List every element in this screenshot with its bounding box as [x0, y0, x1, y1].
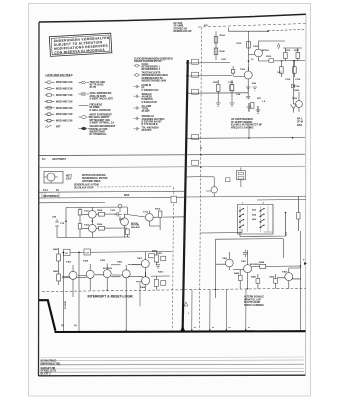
svg-text:WIDERSTAENDE OHM: WIDERSTAENDE OHM [142, 79, 167, 82]
wire y=214 [80, 214, 146, 217]
contact b3 [260, 220, 264, 222]
symbol row 5 [45, 107, 73, 110]
svg-text:ST-PKT: ST-PKT [142, 111, 151, 113]
svg-text:R464: R464 [259, 261, 265, 264]
drop wire x=210 [209, 290, 211, 333]
r-entry 2 [79, 92, 114, 100]
symbol row 3 [45, 94, 73, 97]
resistor R67 [149, 254, 155, 258]
arrowhead x=210 [208, 328, 211, 332]
bus bar (thick vertical supply line) [183, 60, 188, 332]
arrowhead x=246 [244, 328, 247, 332]
rail y=237 [57, 236, 130, 239]
capacitor C5 [278, 43, 280, 49]
wire bus branch y=63 [188, 62, 230, 65]
label box L1 [64, 249, 71, 256]
svg-text:GLEICHSPANNUNGEN GEMESSEN: GLEICHSPANNUNGEN GEMESSEN [134, 57, 173, 60]
frame top edge [39, 14, 306, 22]
ground G1 [247, 103, 252, 111]
resistor R44 [99, 226, 105, 230]
transistor T64 [122, 270, 130, 278]
transistor T80 [225, 259, 233, 267]
resistor R68 [154, 255, 158, 262]
svg-text:R315: R315 [155, 209, 161, 211]
svg-text:R204: R204 [220, 34, 226, 37]
svg-text:PUNKT-GL AUF: PUNKT-GL AUF [244, 298, 262, 301]
transistor T42 leads [91, 221, 93, 237]
svg-text:T312: T312 [143, 212, 149, 214]
interrupt dashed separator [42, 288, 306, 291]
m-entry 2 [134, 72, 168, 83]
transistor T63 leads [95, 264, 107, 291]
resistor R19 [269, 59, 274, 62]
svg-text:R401: R401 [53, 248, 59, 251]
wire x=249 v from grounds [249, 103, 258, 138]
dashed line below top frame [198, 24, 306, 28]
svg-text:FREQ 87.5-104 MHZ: FREQ 87.5-104 MHZ [231, 126, 254, 129]
wire y=266.4 [251, 265, 300, 267]
middle column header underline [134, 59, 165, 61]
svg-text:C207: C207 [221, 59, 227, 61]
contact a2 [239, 214, 243, 216]
bottom collector bar [55, 330, 306, 333]
wire label box a2 [192, 72, 199, 77]
svg-text:R2b: R2b [252, 83, 257, 85]
resistor R17 [293, 67, 297, 73]
junction dot on line y=167 at bus [185, 166, 187, 168]
frame left edge [38, 22, 41, 376]
junction dots on y=138 [248, 137, 250, 139]
rail line y=202.5 short [39, 201, 105, 203]
svg-text:ABGL IM SERV: ABGL IM SERV [90, 95, 107, 98]
label box R69r [161, 281, 166, 286]
junction x300 y266 [300, 265, 302, 267]
symbol row 1 [45, 81, 73, 84]
svg-text:BC238 A: BC238 A [292, 278, 301, 281]
svg-text:SIGNALE: SIGNALE [142, 93, 153, 96]
sub box right edge [282, 239, 284, 258]
svg-text:T403: T403 [66, 261, 72, 264]
resistor R21 [216, 85, 220, 92]
resistor R43 [99, 212, 105, 216]
transistor T65 leads [132, 252, 145, 277]
altern text block [244, 296, 264, 307]
wire label box a4 [192, 134, 199, 139]
contact a4 [239, 225, 243, 227]
svg-text:NETZ: NETZ [66, 176, 73, 178]
ground G4 [230, 103, 235, 107]
svg-text:R210: R210 [266, 56, 272, 58]
diode D1 [292, 84, 297, 88]
ground G3 [216, 103, 221, 107]
schematic frame border [39, 14, 307, 376]
rail line y=192 [39, 191, 185, 192]
svg-text:T302: T302 [84, 225, 90, 227]
resistor R62 [57, 274, 61, 281]
svg-text:ANLAUF: ANLAUF [131, 226, 141, 229]
sub box outline [216, 239, 284, 298]
frame right edge [305, 14, 308, 375]
svg-text:HAUPTABST: HAUPTABST [52, 158, 67, 161]
svg-text:MITTELWERT ANG: MITTELWERT ANG [90, 119, 111, 122]
node 1 tick [184, 302, 188, 306]
ground G5 [246, 87, 250, 90]
svg-text:T404: T404 [83, 260, 89, 263]
svg-text:LISTE DER BAUTEILE: LISTE DER BAUTEILE [46, 73, 74, 77]
svg-text:INTERRUPT & RESET-LOGIK: INTERRUPT & RESET-LOGIK [88, 295, 134, 299]
antenna Y symbol [291, 105, 297, 113]
svg-text:NFT: NFT [56, 126, 61, 129]
junction dots on dashed x=201 [200, 147, 201, 148]
rail line y=197.8 [39, 196, 185, 199]
text block HF-VERSTAERKER [231, 118, 262, 129]
wire vertical x=245 [248, 31, 250, 71]
svg-text:MOD 0902 C/N: MOD 0902 C/N [56, 120, 73, 123]
lower row labels [53, 248, 164, 289]
transistor T49 leads [149, 211, 160, 227]
vertical x=140 [139, 283, 141, 306]
drop wire x=226.5 [225, 289, 227, 332]
mid band small text [42, 158, 130, 198]
transistor T47 leads [124, 214, 126, 237]
svg-text:C.R: C.R [85, 253, 89, 255]
middle legend column [134, 63, 168, 132]
contact field right extension outline [264, 205, 274, 233]
right margin labels [297, 118, 303, 127]
transistor T1 leads [249, 45, 259, 61]
svg-text:T226: T226 [292, 98, 298, 100]
dashed boundary vertical x=173 [173, 187, 174, 330]
contact a3 [239, 220, 243, 222]
svg-text:220V: 220V [66, 179, 72, 181]
svg-text:C GROESS 1UF: C GROESS 1UF [142, 90, 160, 92]
svg-text:R306: R306 [97, 224, 103, 226]
transistor T3 [296, 101, 303, 108]
capacitor C45 [114, 212, 122, 217]
wire y=268 from junction down to T82 [289, 266, 301, 268]
symbol list header underline [46, 76, 72, 78]
svg-text:S 12: S 12 [43, 190, 48, 192]
resistor R13 [247, 42, 251, 49]
junction dot y=138 [185, 137, 187, 139]
capacitor C88 [55, 219, 59, 229]
transistor T41 leads [91, 207, 93, 221]
vertical x=57 [56, 229, 58, 238]
svg-text:D ENTSPR BAUST: D ENTSPR BAUST [142, 120, 163, 123]
wire step y=177 [201, 176, 214, 178]
wire x=160 down [149, 218, 160, 231]
svg-text:C222: C222 [228, 82, 234, 84]
svg-text:TASTEN-ELEKTR: TASTEN-ELEKTR [142, 72, 161, 75]
svg-text:GEGEN CHASSIS MIT RV: GEGEN CHASSIS MIT RV [134, 60, 162, 63]
resistor R69 [154, 279, 158, 286]
hopper thick contour [39, 300, 55, 331]
transistor T61 leads [62, 265, 73, 297]
resistor R41 [78, 210, 82, 216]
svg-text:BC238 B: BC238 B [250, 264, 259, 266]
long vertical x=300.5 [300, 231, 302, 331]
long signal line y=196.5 [185, 195, 306, 198]
symbol row 8 [45, 125, 61, 128]
svg-text:T311: T311 [119, 219, 125, 221]
transistor T49 [145, 213, 153, 221]
m-entry 6 [134, 116, 166, 126]
svg-text:1.R: 1.R [65, 253, 69, 255]
svg-text:C216: C216 [285, 79, 291, 81]
m-entry 4 [134, 93, 158, 104]
svg-text:MOD 0902 C/N: MOD 0902 C/N [56, 81, 73, 84]
resistor R12 [214, 48, 218, 55]
wire y=228 [80, 227, 127, 230]
transistor T61 [69, 271, 77, 279]
wire bus branch y=138 [186, 137, 305, 140]
svg-text:T465: T465 [282, 271, 288, 274]
svg-text:MAN: MAN [124, 194, 130, 197]
resistor R14 [284, 53, 288, 59]
svg-text:ABSTIMM-TRIEB: ABSTIMM-TRIEB [82, 180, 101, 183]
motor symbol leads [44, 177, 58, 183]
svg-text:C310: C310 [110, 210, 116, 212]
transistor T62 leads [78, 264, 90, 291]
r-entry 3 [79, 105, 111, 112]
transistor T3 leads [293, 92, 299, 112]
resistor R22 [230, 85, 234, 91]
transistor T2 leads [234, 67, 248, 95]
transistor T66 leads [136, 272, 146, 290]
arrowhead x=192 [190, 328, 193, 332]
svg-text:MOD 0497 C/N: MOD 0497 C/N [56, 100, 73, 103]
svg-text:B TYP-SCHILD: B TYP-SCHILD [142, 124, 158, 126]
resistor R16 [280, 67, 284, 73]
contact b4 [260, 225, 264, 227]
long signal line y=155 [39, 154, 305, 155]
wire right row stubs [156, 252, 166, 290]
svg-text:R466: R466 [234, 272, 240, 275]
wire x=285 vertical [285, 212, 287, 236]
drop wire x=246 [245, 289, 247, 332]
ground G2 [256, 106, 261, 114]
svg-text:R402: R402 [53, 270, 59, 273]
svg-text:BETRIEBSSPG 2: BETRIEBSSPG 2 [142, 69, 161, 71]
svg-text:C210: C210 [236, 43, 242, 45]
rule line 5 [40, 371, 304, 374]
svg-text:(F): (F) [61, 325, 64, 327]
wire y=264 to T65 [128, 264, 140, 266]
rail y=207 [66, 206, 127, 209]
label box left edge [230, 85, 234, 91]
svg-text:GEN 5PC: GEN 5PC [142, 130, 152, 132]
contact a1 [239, 209, 243, 211]
junction dots on dashed line [215, 289, 216, 290]
wire bus branch y=177 [186, 176, 201, 178]
drop wire x=192 [191, 290, 193, 332]
ground G6 [253, 87, 257, 90]
svg-text:R221: R221 [213, 82, 219, 84]
resistor R15 [296, 53, 300, 59]
long signal line y=167 [39, 166, 305, 167]
svg-text:TRAF NF-UEB: TRAF NF-UEB [90, 81, 106, 84]
svg-text:(F): (F) [74, 325, 77, 327]
left symbol column [45, 81, 73, 129]
resistor R61 [57, 254, 61, 261]
vertical x=58.6 [58, 248, 60, 285]
svg-text:T408: T408 [140, 286, 146, 289]
junction dot x285 [285, 212, 287, 214]
svg-text:NF-TR AUSG: NF-TR AUSG [90, 83, 104, 86]
bus arrowhead at bar [180, 326, 186, 333]
transistor T47 [121, 218, 129, 226]
svg-text:S-WERT NACH LISTE: S-WERT NACH LISTE [90, 97, 114, 100]
svg-text:ABGL-WERDEN BEI: ABGL-WERDEN BEI [90, 92, 112, 95]
component value labels top right [204, 25, 301, 103]
svg-text:ST-MOD: ST-MOD [65, 300, 67, 309]
vertical x=127.4 [126, 207, 128, 237]
long signal line y=199.6 right [257, 198, 306, 201]
svg-text:D ABGL-VORSCHR: D ABGL-VORSCHR [90, 109, 111, 112]
svg-text:MOD 0697 C/N: MOD 0697 C/N [56, 113, 73, 116]
resistor R23 [231, 69, 234, 73]
wire y=265 [111, 264, 121, 266]
wire x=242 up [241, 229, 243, 233]
svg-text:R304: R304 [97, 209, 103, 212]
wire y=67 right cluster [259, 60, 306, 62]
svg-text:T461: T461 [241, 260, 247, 263]
svg-text:DEMOD-EFF-NF: DEMOD-EFF-NF [174, 30, 193, 33]
svg-text:BY STOERFALL: BY STOERFALL [90, 133, 108, 136]
contact field labels [242, 202, 265, 221]
svg-text:MOTOR: MOTOR [131, 225, 140, 227]
r-entry 5 [79, 126, 117, 136]
transistor T55 leads [206, 177, 214, 197]
resistor R48 [126, 229, 130, 235]
svg-text:T407: T407 [137, 257, 143, 260]
label box on dashed line [171, 196, 177, 203]
junction dot y=76 [186, 75, 188, 77]
resistor R84 [260, 264, 266, 268]
rule line 1 [39, 356, 304, 359]
motor symbol M1 [47, 173, 55, 181]
wire verticals right cluster [281, 48, 297, 77]
svg-text:C218: C218 [295, 79, 301, 81]
wire stubs under R21 R22 [218, 80, 232, 103]
svg-text:EMPFANGS-TEIL: EMPFANGS-TEIL [41, 362, 62, 365]
left margin ticks [42, 192, 59, 198]
dashed rail y=186.8 [97, 185, 172, 188]
svg-text:T301: T301 [84, 211, 90, 213]
svg-text:S SIGNALTAB: S SIGNALTAB [142, 101, 158, 104]
contact field frame [238, 205, 274, 235]
transistor T42 [88, 224, 96, 232]
transistor T81 [244, 265, 252, 273]
vertical x=66 long [63, 252, 65, 331]
contact dots [243, 208, 265, 226]
wire bus branch y=76 [188, 75, 232, 78]
wire top rail y=31 [229, 28, 269, 32]
r-entry 1 [79, 81, 106, 89]
dashed boundary vertical x=201 [200, 27, 202, 330]
contact group A column wires [240, 206, 268, 232]
rule line 2 [40, 359, 304, 362]
wire stubs sub circuit [240, 270, 275, 289]
wire vertical x=293 upper [293, 60, 295, 104]
svg-text:BEI ABGL ERMITT: BEI ABGL ERMITT [90, 116, 111, 119]
svg-text:TOTAL: TOTAL [142, 108, 150, 111]
svg-text:S-WERT OPTIMAL, CA: S-WERT OPTIMAL, CA [90, 121, 115, 124]
resistor R42 [78, 224, 82, 230]
symbol list header [46, 73, 74, 77]
svg-text:SUCHLAUF STOP: SUCHLAUF STOP [74, 186, 94, 189]
svg-text:C468: C468 [269, 276, 275, 279]
box with X symbol (fuse) [237, 171, 246, 180]
wire y=306 [140, 305, 182, 307]
svg-text:STATIV CARRERA: STATIV CARRERA [244, 304, 264, 307]
transistor T65 [141, 260, 149, 268]
label box near T55 [226, 178, 231, 182]
m-entry 7 [134, 126, 159, 132]
right symbol column [79, 81, 117, 136]
svg-text:R215: R215 [285, 50, 291, 52]
wire x=298 vertical [297, 197, 299, 231]
svg-text:BLATT 2: BLATT 2 [41, 372, 52, 375]
legend box (double border, slightly rotated) [49, 33, 112, 56]
transistor T62 [86, 270, 94, 278]
svg-text:MOTOR-STEUERUNG: MOTOR-STEUERUNG [82, 175, 106, 177]
wire bus branch y=93 [187, 92, 248, 94]
svg-text:R217: R217 [294, 50, 300, 52]
junction dots lower row [63, 252, 65, 254]
wire y=45 top-right [259, 41, 286, 45]
transistor T82 [285, 273, 293, 281]
r-entry 4 [79, 115, 115, 125]
upper row labels [52, 209, 161, 230]
svg-text:ANSTELLE VON: ANSTELLE VON [90, 128, 108, 131]
svg-text:m: m [194, 327, 196, 329]
resistor R11 [214, 37, 218, 44]
m-entry 5 [134, 105, 152, 113]
svg-text:m: m [229, 327, 231, 329]
label box R68r [161, 256, 166, 261]
legend text [53, 36, 110, 55]
transistor T55 [211, 187, 217, 193]
svg-text:SENDERLAUF AUTOM: SENDERLAUF AUTOM [74, 184, 99, 187]
svg-text:ST-TR: ST-TR [90, 87, 97, 89]
capacitor C70 [156, 263, 160, 270]
svg-text:OSZ: OSZ [297, 124, 302, 127]
wire to bus y=217 [163, 216, 186, 218]
svg-text:CHAS: CHAS [142, 63, 149, 66]
capacitor C83 [243, 250, 248, 258]
transistor T64 leads [112, 265, 126, 333]
arrowhead x=124 [125, 329, 128, 333]
arrowhead x=226.3 [225, 328, 228, 332]
svg-text:T405: T405 [100, 259, 106, 262]
svg-text:AN MESS: AN MESS [142, 96, 153, 99]
contact b2 [260, 214, 264, 216]
contact b1 [260, 209, 264, 211]
middle legend column header [134, 57, 173, 63]
transistor T81 leads [233, 250, 248, 289]
rail y=252 [62, 252, 172, 253]
transistor T80 leads [216, 252, 230, 270]
top-center text block [174, 22, 193, 33]
vertical x=120 [119, 207, 121, 221]
wire vertical x=216 [215, 31, 217, 60]
svg-text:SPANNUNGSANGABEN: SPANNUNGSANGABEN [142, 74, 168, 77]
title block text [41, 360, 62, 376]
frame bottom edge [39, 374, 306, 377]
svg-text:ALLGEM: ALLGEM [142, 105, 152, 108]
junction dots on y=61 wire [281, 60, 282, 61]
